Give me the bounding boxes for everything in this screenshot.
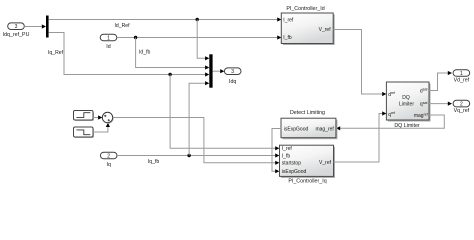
svg-text:Iq_fb: Iq_fb	[148, 159, 159, 165]
step source block 2	[74, 127, 95, 138]
wire PI_Controller_Id V_ref to DQ Limiter d_ref	[333, 30, 386, 97]
svg-text:2: 2	[460, 102, 463, 108]
svg-text:Id_Ref: Id_Ref	[114, 23, 130, 29]
svg-text:1: 1	[107, 35, 110, 41]
svg-text:isExpGood: isExpGood	[284, 127, 309, 133]
wire DQ Limiter mag_ref to Detect Limiting	[336, 115, 444, 130]
wire step2 to sum	[93, 123, 110, 132]
svg-text:V_ref: V_ref	[319, 27, 332, 33]
svg-text:Vd_ref: Vd_ref	[454, 78, 470, 84]
svg-text:Iq_Ref: Iq_Ref	[48, 50, 64, 56]
node junction Iq_fb branch	[187, 154, 190, 157]
svg-text:I_ref: I_ref	[283, 17, 294, 23]
demux	[46, 16, 49, 38]
wire Id_fb branch to mux in2	[136, 38, 210, 70]
wire mux to outport Idq	[213, 69, 225, 73]
inport 3 Idq_ref_PU	[3, 23, 30, 38]
wire Id_Ref (demux out1 to PI_Controller_Id I_ref)	[49, 17, 282, 29]
node junction Iq_Ref branch	[168, 73, 171, 76]
svg-text:3: 3	[231, 69, 234, 75]
outport 3 Idq	[224, 68, 241, 85]
wire DQ Limiter d_sat to outport Vd_ref	[429, 71, 452, 91]
subsystem PI_Controller_Id	[281, 6, 334, 45]
wire PI_Controller_Iq V_ref to DQ Limiter q_ref	[334, 111, 387, 162]
subsystem DQ Limiter	[386, 82, 430, 129]
svg-text:mag_ref: mag_ref	[315, 127, 334, 133]
sum block	[102, 112, 113, 123]
wire Iq to PI_Controller_Iq I_fb	[117, 153, 279, 165]
svg-text:Id: Id	[106, 44, 110, 50]
svg-text:PI_Controller_Iq: PI_Controller_Iq	[288, 179, 326, 185]
wire Iq_fb branch to mux in4	[189, 81, 209, 155]
svg-text:Idq_ref_PU: Idq_ref_PU	[3, 32, 30, 38]
node junction Id_Ref branch	[196, 18, 199, 21]
subsystem PI_Controller_Iq	[280, 145, 336, 184]
wire sum to PI_Controller_Iq startstop	[113, 118, 280, 165]
subsystem Detect Limiting	[281, 110, 337, 139]
svg-text:3: 3	[15, 24, 18, 30]
wire DQ Limiter q_sat to outport Vq_ref	[429, 102, 452, 106]
step source block 1	[74, 111, 95, 122]
svg-text:Id_fb: Id_fb	[139, 50, 150, 56]
svg-text:DQ: DQ	[402, 95, 410, 101]
svg-text:I_ref: I_ref	[282, 146, 293, 152]
wire Detect Limiting isExpGood to PI_Controller_Iq	[272, 129, 281, 174]
inport 1 Id	[100, 34, 117, 50]
svg-text:Iq: Iq	[106, 162, 110, 168]
wire inport3 to demux	[24, 24, 46, 28]
svg-text:isExpGood: isExpGood	[282, 169, 307, 175]
svg-text:I_fb: I_fb	[282, 153, 291, 159]
svg-text:startstop: startstop	[282, 161, 301, 167]
wire Id to PI_Controller_Id I_fb	[117, 35, 282, 39]
svg-text:Detect Limiting: Detect Limiting	[290, 110, 325, 116]
wire Iq_Ref (demux out2 to mux in3)	[48, 33, 209, 77]
wire Iq_Ref branch to PI_Controller_Iq I_ref	[170, 75, 279, 151]
inport 2 Iq	[100, 152, 117, 168]
svg-text:Idq: Idq	[229, 79, 236, 85]
svg-text:2: 2	[107, 153, 110, 159]
svg-text:Limiter: Limiter	[399, 101, 414, 107]
outport 1 Vd_ref	[453, 70, 470, 84]
svg-text:I_fb: I_fb	[283, 35, 292, 41]
svg-text:PI_Controller_Id: PI_Controller_Id	[286, 6, 324, 12]
wire step1 to sum	[93, 115, 102, 119]
outport 2 Vq_ref	[453, 100, 470, 114]
mux	[209, 54, 212, 87]
svg-text:Vq_ref: Vq_ref	[454, 108, 470, 114]
wire Id_Ref branch to mux in1	[197, 20, 209, 61]
svg-text:V_ref: V_ref	[319, 160, 332, 166]
svg-text:1: 1	[460, 71, 463, 77]
node junction Id_fb branch	[134, 36, 137, 39]
